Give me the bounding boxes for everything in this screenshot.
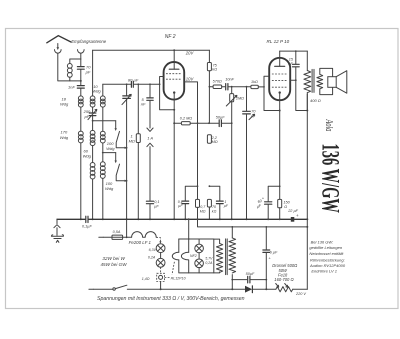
mains input plug 2: [89, 288, 93, 290]
resistor 1MOhm (vertical): [137, 84, 139, 133]
wire cathode line down: [173, 110, 175, 220]
capacitor 5nF: [149, 84, 151, 97]
svg-text:kΩ: kΩ: [212, 68, 217, 72]
NF2 grid 1 (dashed): [166, 78, 182, 80]
antenna coil L1: [70, 59, 81, 64]
svg-text:pF: pF: [250, 115, 256, 119]
stub to cap 1uF: [209, 185, 211, 187]
lamp socket (dashed): [160, 267, 162, 273]
svg-text:5,7V: 5,7V: [205, 256, 213, 260]
RL12P10 grid lead: [264, 76, 280, 110]
wire cup2 to LC node: [80, 53, 82, 59]
mains switch: [93, 288, 112, 290]
electrolytic 22uF (series in bus): [291, 217, 295, 222]
antenna plug arrow: [57, 44, 59, 48]
heater jack left: [172, 252, 178, 260]
label RL12P10 heater: [165, 277, 171, 279]
NF2 grid 2 (dashed): [166, 73, 182, 75]
capacitor 70pF: [80, 59, 82, 66]
svg-text:µF: µF: [154, 205, 159, 209]
dropper resistor (zigzag): [214, 239, 220, 243]
wires secondary to speaker: [320, 68, 333, 76]
svg-text:Wdg: Wdg: [60, 135, 69, 140]
resistor 570 Ohm (horizontal): [209, 86, 213, 88]
loudspeaker: [328, 77, 336, 88]
NF2 screen stub 10V: [184, 82, 197, 123]
heater box frame: [179, 239, 214, 273]
capacitor 50uF (series): [232, 279, 247, 281]
wire stub to switch 1: [92, 120, 94, 122]
capacitor 1nF: [80, 81, 82, 85]
ground symbol: [56, 219, 58, 223]
node 5nF line top: [149, 83, 151, 85]
tap arrows: [276, 284, 279, 288]
svg-text:0,1µF: 0,1µF: [82, 224, 92, 228]
tapped resistor (zigzag): [276, 287, 293, 292]
svg-text:gedrillte Leitungen: gedrillte Leitungen: [309, 245, 342, 250]
svg-text:1MΩ: 1MΩ: [236, 96, 244, 100]
RL12P10 grids (dashed): [272, 73, 288, 75]
drop from bus to heater plug: [188, 219, 190, 252]
coil 200 Wdg (column 3 lower): [100, 162, 105, 167]
coil column 3 top: [100, 96, 105, 101]
wire col3 from row84: [102, 84, 104, 96]
wire col1 mid: [80, 107, 82, 131]
svg-text:50µF: 50µF: [246, 272, 255, 276]
dial lamp 6,3V: [156, 244, 165, 253]
svg-text:0,2 MΩ: 0,2 MΩ: [180, 117, 192, 121]
RL12P10 cathode: [279, 91, 281, 93]
resistor 1kOhm (horizontal): [251, 85, 258, 88]
svg-text:Wdg: Wdg: [92, 89, 101, 94]
coil 10 Wdg (column 2 top): [90, 96, 95, 101]
svg-text:Netzdrossel entfällt: Netzdrossel entfällt: [309, 251, 344, 256]
wire col3 to bus: [102, 178, 104, 219]
trimmer 70pF: [246, 86, 248, 88]
capacitor 0,1uF (mid): [182, 201, 189, 204]
svg-text:nF: nF: [141, 101, 146, 106]
svg-text:136 W/GW: 136 W/GW: [316, 144, 343, 214]
svg-text:0,2A: 0,2A: [205, 261, 213, 265]
RL12P10 screen stub: [290, 79, 296, 81]
ground bus: [57, 218, 307, 220]
svg-text:32W bei W: 32W bei W: [102, 256, 125, 261]
svg-text:160-700 Ω: 160-700 Ω: [274, 277, 293, 282]
tube NF2 envelope: [164, 62, 185, 100]
potentiometer 1MOhm: [231, 86, 233, 88]
antenna jack cup 2: [78, 50, 85, 54]
svg-text:1nF: 1nF: [68, 85, 75, 90]
svg-text:pF: pF: [84, 114, 90, 119]
output transformer primary 400 Ohm: [306, 51, 308, 70]
svg-text:NF2: NF2: [190, 254, 197, 258]
svg-text:+: +: [296, 213, 299, 218]
switch 2: [115, 153, 117, 161]
svg-text:Bei 136 GW:: Bei 136 GW:: [311, 240, 334, 245]
svg-text:+: +: [268, 255, 271, 260]
variable capacitor (tuning): [126, 84, 128, 95]
heater plug right: [181, 252, 188, 273]
coil 170 Wdg (column 1 lower): [78, 131, 83, 136]
svg-text:Wdg: Wdg: [105, 186, 114, 191]
capacitor 15nF: [295, 51, 297, 64]
RF choke Fe200 LF1 (two humps): [127, 236, 132, 238]
transformer core: [312, 69, 314, 92]
wire col2 from top bus: [92, 50, 94, 96]
svg-text:kΩ: kΩ: [212, 210, 217, 214]
RL12P10 anode: [275, 65, 285, 67]
tube RL12P10 envelope: [269, 58, 290, 100]
node antenna bottom: [80, 80, 82, 82]
wire row y84: [103, 83, 160, 85]
wire col1 to bus: [80, 143, 82, 219]
svg-text:15: 15: [289, 57, 294, 61]
mains line: [127, 288, 245, 290]
dashed link to dial lamps: [156, 237, 160, 241]
svg-text:RL 12 P 10: RL 12 P 10: [267, 39, 290, 44]
svg-text:Ω: Ω: [284, 205, 287, 209]
svg-text:MΩ: MΩ: [200, 210, 206, 214]
svg-text:1kΩ: 1kΩ: [251, 80, 258, 84]
svg-text:Empfangsantenne: Empfangsantenne: [71, 39, 106, 44]
resistor 75kOhm: [208, 50, 210, 62]
svg-text:70: 70: [212, 205, 216, 209]
svg-text:2,2: 2,2: [211, 136, 218, 140]
svg-text:0,2A: 0,2A: [148, 255, 156, 259]
top bus 20V: [93, 49, 210, 51]
stub to cap 0,1uF mid: [197, 185, 199, 187]
svg-text:Audion RV12P4000: Audion RV12P4000: [309, 263, 346, 268]
svg-text:10V: 10V: [186, 77, 195, 82]
wire varcap down to bus and fuse line: [126, 99, 128, 237]
capacitor 10nF (series): [222, 86, 225, 88]
svg-text:1 A: 1 A: [147, 135, 153, 140]
dial lamp 0,2A: [160, 253, 162, 259]
heater transformer primary: [231, 227, 233, 238]
svg-text:pF: pF: [85, 70, 91, 75]
fuse 0,5A: [103, 236, 112, 238]
svg-text:400 Ω: 400 Ω: [310, 98, 321, 103]
NF2 heater lamps: [198, 239, 200, 244]
NF2 anode: [169, 68, 179, 70]
rectifier diode: [245, 286, 252, 293]
svg-text:RL12P10: RL12P10: [171, 276, 186, 280]
switch 1: [115, 121, 117, 129]
capacitor 50uF (series in row): [190, 122, 218, 124]
node 1M line top: [137, 83, 139, 85]
svg-text:80 µF: 80 µF: [128, 78, 139, 83]
svg-text:Aola: Aola: [324, 119, 335, 132]
svg-text:µF: µF: [256, 203, 262, 209]
resistor 0,7MOhm (vertical): [196, 199, 200, 207]
anode line to output: [280, 50, 308, 52]
coil 18 Wdg (column 1 top): [80, 89, 82, 96]
trimmer 250pF: [92, 107, 94, 112]
coil 60 Wdg (column 2 lower): [90, 163, 95, 168]
svg-text:Wdg: Wdg: [106, 146, 115, 151]
svg-text:Wdg: Wdg: [60, 102, 69, 107]
resistor 70kOhm (vertical): [207, 199, 211, 207]
spark gap 1A: [149, 101, 151, 128]
svg-text:Wdg: Wdg: [83, 153, 92, 158]
node varcap top: [126, 83, 128, 85]
svg-text:220 V: 220 V: [295, 292, 306, 296]
svg-text:0,1: 0,1: [154, 200, 159, 204]
capacitor 0,1uF (series in ground bus): [86, 216, 88, 222]
svg-text:50µF: 50µF: [216, 115, 225, 119]
capacitor 6uF: [265, 227, 267, 249]
svg-text:NF 2: NF 2: [165, 34, 176, 40]
resistor 150 Ohm (cathode): [278, 199, 282, 207]
wire RL12P10 cathode down: [279, 111, 281, 200]
svg-text:0,5A: 0,5A: [113, 230, 121, 234]
coil column 2 mid: [90, 130, 95, 135]
svg-text:MΩ: MΩ: [212, 140, 218, 144]
svg-text:Endröhre LV 1: Endröhre LV 1: [311, 268, 337, 273]
svg-text:+: +: [262, 195, 265, 200]
wire antenna down-left: [58, 53, 81, 81]
mains input plug 1: [99, 236, 103, 238]
svg-text:Röhrenbestückung:: Röhrenbestückung:: [310, 257, 345, 262]
bus 2 (heater return): [198, 219, 308, 227]
capacitor 1uF: [216, 201, 223, 204]
resistor 2,2MOhm (vertical): [207, 135, 211, 143]
wire stub to switch 2: [102, 143, 104, 162]
heater transformer core: [226, 239, 228, 275]
svg-text:570Ω: 570Ω: [213, 79, 222, 83]
svg-text:20V: 20V: [185, 51, 195, 56]
capacitor 0,1uF (left): [149, 147, 151, 201]
capacitor 80uF (series in row): [131, 81, 133, 87]
svg-text:6 µF: 6 µF: [270, 250, 278, 254]
svg-text:150: 150: [283, 201, 290, 205]
NF2 cathode: [173, 91, 175, 93]
svg-text:Fe200 LF 1: Fe200 LF 1: [129, 240, 152, 245]
antenna jack cup 1: [55, 50, 62, 54]
svg-text:6,3V: 6,3V: [149, 248, 157, 252]
electrolytic 60uF: [265, 202, 272, 204]
cathode branch 60uF: [279, 185, 281, 187]
antenna: [47, 36, 71, 43]
right vertical main: [306, 94, 308, 289]
output transformer secondary: [317, 74, 323, 89]
svg-text:170: 170: [61, 130, 68, 135]
wire screen line down: [197, 123, 199, 199]
svg-text:µF: µF: [224, 204, 229, 208]
svg-text:Spannungen mit Instrument 333: Spannungen mit Instrument 333 Ω / V, 300…: [97, 296, 245, 302]
svg-text:0,7: 0,7: [200, 205, 206, 209]
svg-text:1,4Ω: 1,4Ω: [142, 277, 150, 281]
svg-text:µF: µF: [178, 204, 183, 208]
NF2 grid return loop: [160, 77, 175, 110]
svg-text:10nF: 10nF: [225, 78, 234, 82]
svg-text:70: 70: [251, 110, 256, 114]
coil 100 Wdg (column 3 mid): [100, 131, 105, 136]
resistor 0,2MOhm (horizontal): [174, 122, 181, 124]
wire col2 to bus: [92, 179, 94, 219]
svg-text:45W bei GW: 45W bei GW: [101, 262, 128, 267]
svg-text:nF: nF: [288, 62, 293, 66]
svg-text:MΩ: MΩ: [129, 138, 135, 143]
